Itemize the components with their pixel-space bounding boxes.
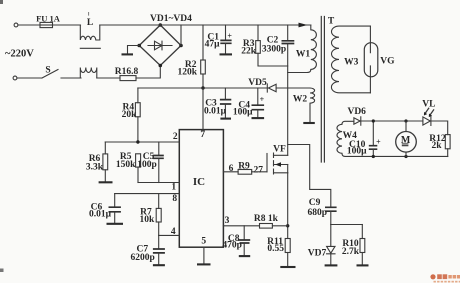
- capacitor C9 680p: [325, 207, 337, 211]
- diode inside bridge: [148, 41, 172, 50]
- resistor R16.8: [120, 76, 136, 81]
- resistor R4 20k: [137, 88, 139, 103]
- capacitor C7 6200p: [158, 235, 160, 248]
- pin 5 wire to ground: [203, 247, 205, 264]
- inductor L (lower winding): [80, 68, 97, 79]
- diode VD7: [330, 225, 332, 247]
- wire W1 bottom to node: [288, 72, 308, 74]
- transformer winding W1: [308, 25, 317, 72]
- wire: [61, 77, 81, 79]
- pin 8 wire: [115, 193, 180, 195]
- wire: [136, 66, 160, 79]
- resistor R3 22k: [257, 25, 259, 41]
- capacitor C5 100p: [158, 142, 160, 155]
- resistor R7 10k: [158, 194, 160, 209]
- clamp node wire with VD5: [138, 87, 310, 89]
- speck top-left corner: [0, 0, 3, 4]
- resistor R5 150k: [136, 154, 141, 167]
- capacitor C10 100u: [372, 121, 374, 145]
- diode VD6: [354, 117, 361, 125]
- junction dots on bridge corners: [159, 23, 163, 27]
- wire to gate: [252, 171, 267, 173]
- pin 7 wire: [202, 88, 204, 130]
- motor M: [405, 121, 407, 157]
- resistor R2 120k: [202, 25, 204, 60]
- speck left edge: [0, 269, 4, 273]
- capacitor C1 47u: [225, 25, 227, 40]
- pin 1 wire: [138, 182, 179, 184]
- surge arrester VG: [369, 26, 371, 93]
- junction dot R2 bottom: [201, 86, 204, 89]
- ground: [122, 53, 134, 55]
- capacitor C4 100u: [257, 88, 259, 105]
- fuse FU 1A: [40, 22, 53, 27]
- pin 6 wire: [223, 171, 238, 173]
- IC box: [179, 130, 223, 248]
- capacitor C8 470p: [243, 226, 245, 240]
- wire drain node to C9: [288, 145, 331, 207]
- resistor R8 1k: [260, 224, 273, 229]
- transformer core: [321, 17, 324, 163]
- junction dot source/R8: [286, 224, 289, 227]
- transformer winding W2: [310, 88, 315, 123]
- resistor R9 27: [238, 170, 252, 175]
- resistor R10 2.7k: [361, 225, 363, 239]
- transformer winding W3: [331, 26, 370, 93]
- wire: [53, 24, 81, 26]
- wire: [97, 77, 120, 79]
- capacitor C3 0.01u: [224, 88, 226, 99]
- wire bridge left corner to ground: [128, 46, 140, 55]
- wire bridge right corner riser: [180, 25, 182, 46]
- transformer winding W4: [337, 121, 448, 156]
- wire LED to R12: [431, 121, 448, 135]
- node: AC line input terminal bottom: [13, 76, 17, 80]
- wire top DC rail: [100, 24, 311, 26]
- resistor R6 3.3k: [104, 142, 106, 154]
- wire: [18, 24, 40, 26]
- junction dots output rail: [372, 119, 375, 122]
- junction dot R4/R5 node: [136, 140, 139, 143]
- switch S: [17, 70, 58, 79]
- inductor L (common-mode choke, upper winding): [80, 25, 100, 40]
- capacitor C6 0.01u: [114, 194, 116, 207]
- wire C9 bottom node: [331, 224, 363, 226]
- diode VD5: [267, 84, 276, 92]
- node: AC line input terminal top: [14, 23, 18, 27]
- resistor R12 2k: [445, 135, 450, 149]
- resistor R11 0.55: [285, 239, 290, 253]
- wire main drain node vertical: [287, 44, 289, 155]
- capacitor C2 3300p: [287, 25, 289, 40]
- ground W2: [303, 122, 315, 124]
- pin 4 wire: [159, 234, 180, 236]
- arrow on rail into W1: [299, 23, 308, 28]
- bridge rectifier VD1~VD4: [139, 25, 181, 66]
- wire source to R11: [287, 173, 289, 239]
- pin 3 wire: [223, 225, 259, 227]
- speck above L: [88, 12, 90, 16]
- wire output top rail: [361, 120, 423, 122]
- pin 2 wire: [105, 141, 179, 143]
